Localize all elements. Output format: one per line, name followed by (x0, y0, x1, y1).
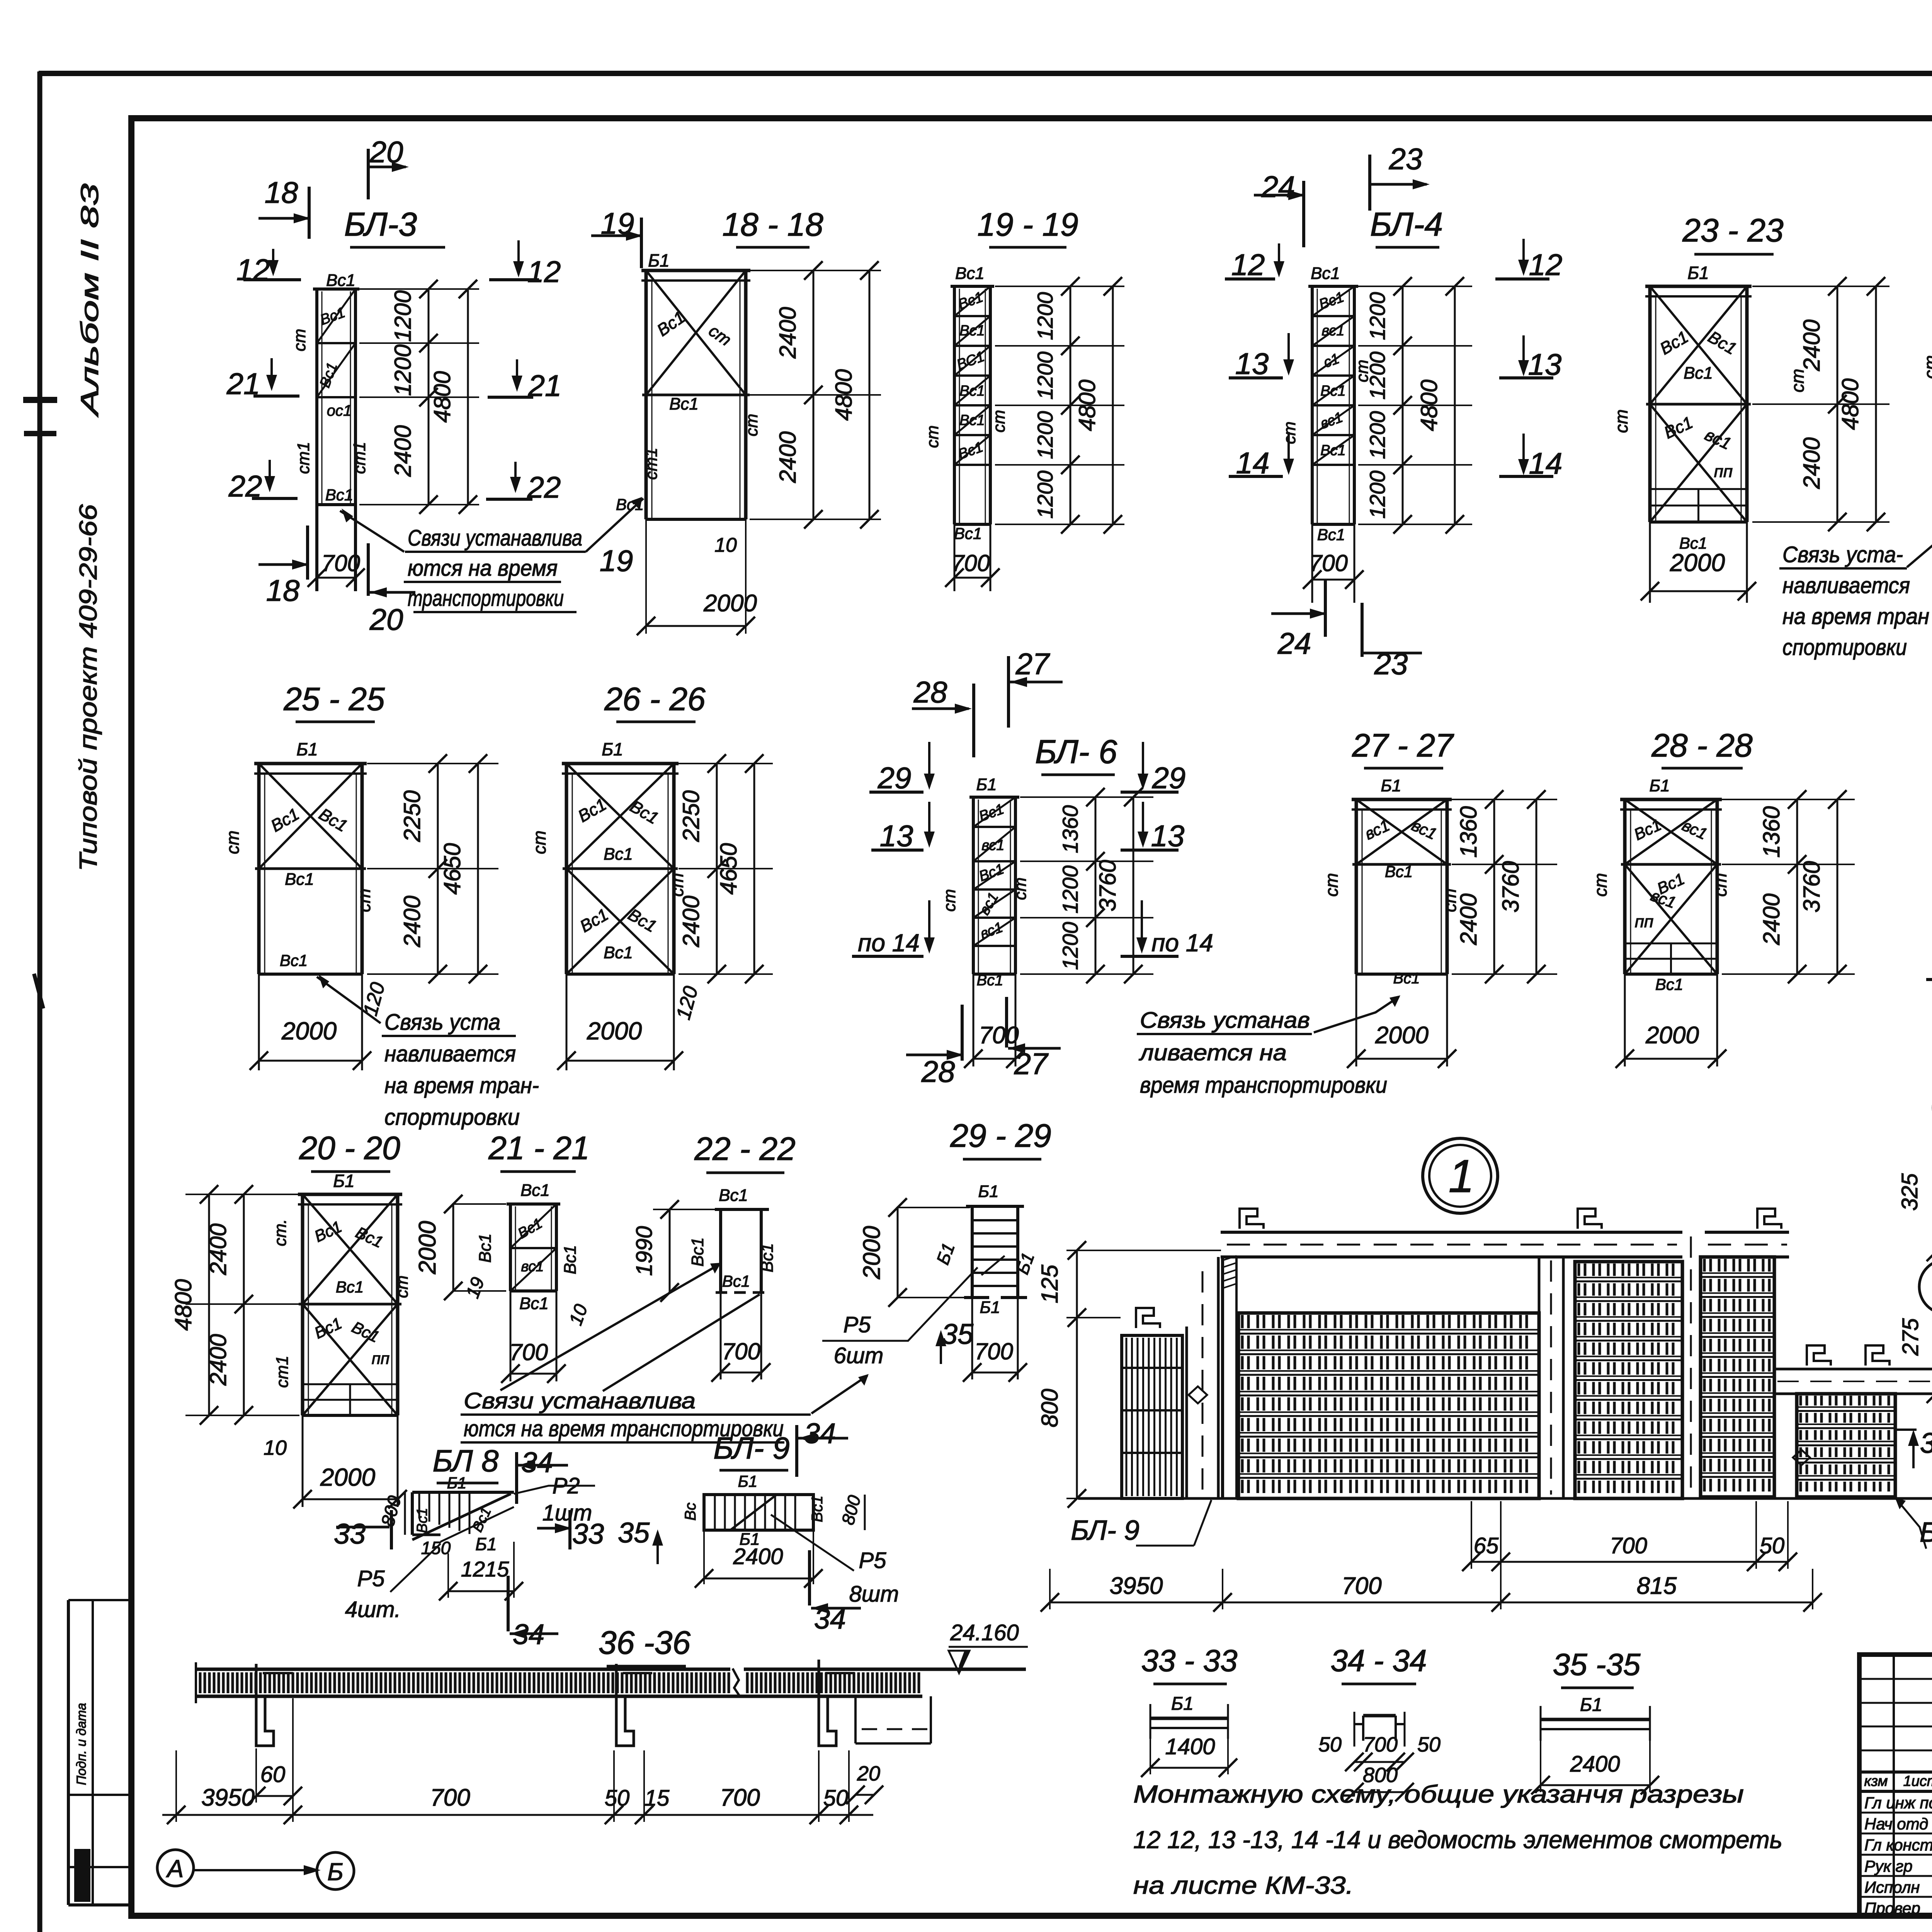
dim 2000 left of 29-29 (896, 1207, 970, 1208)
svg-text:Вс1: Вс1 (977, 972, 1003, 989)
svg-text:Вс1: Вс1 (688, 1237, 707, 1267)
svg-text:2400: 2400 (1456, 893, 1481, 945)
box column 28-28 (1620, 798, 1722, 801)
svg-text:Вс1: Вс1 (722, 1272, 750, 1290)
svg-text:3950: 3950 (201, 1784, 255, 1811)
svg-text:18 - 18: 18 - 18 (722, 206, 823, 243)
svg-text:пп: пп (1635, 912, 1653, 931)
svg-text:пп: пп (372, 1349, 389, 1367)
svg-text:4800: 4800 (429, 371, 455, 422)
svg-text:Вс1: Вс1 (959, 383, 985, 399)
svg-text:1200: 1200 (1058, 922, 1082, 970)
svg-text:28: 28 (913, 675, 947, 709)
36-36 bottom dims 3950/700/50/15/700/50 (175, 1750, 177, 1822)
svg-text:Вс1: Вс1 (959, 412, 985, 429)
dimension total 4800 of БЛ-3 (467, 289, 469, 505)
svg-text:29 - 29: 29 - 29 (950, 1117, 1051, 1154)
svg-text:Вс1: Вс1 (325, 486, 353, 504)
leader from note up-right (811, 1376, 867, 1413)
svg-text:Вс1: Вс1 (719, 1186, 748, 1205)
svg-text:1200: 1200 (1033, 352, 1057, 400)
svg-text:Вс1: Вс1 (1320, 442, 1345, 459)
svg-text:ст: ст (1787, 369, 1808, 392)
extension lines БЛ-4 dims (1358, 286, 1472, 287)
svg-text:ст: ст (923, 425, 942, 448)
svg-text:700: 700 (722, 1338, 760, 1364)
svg-text:12 12, 13 -13, 14 -14: 12 12, 13 -13, 14 -14 и ведомость элемен… (1133, 1826, 1782, 1854)
svg-text:Связь устанав: Связь устанав (1140, 1008, 1310, 1033)
svg-text:ст: ст (529, 830, 549, 854)
svg-text:Вс1: Вс1 (519, 1294, 549, 1313)
svg-text:50: 50 (1417, 1733, 1440, 1756)
svg-text:700: 700 (1610, 1533, 1647, 1558)
svg-text:1400: 1400 (1165, 1734, 1215, 1759)
svg-text:транспортировки: транспортировки (408, 586, 564, 611)
svg-text:Б1: Б1 (648, 250, 670, 270)
left post of big panel (1221, 1257, 1224, 1498)
svg-text:Вс1: Вс1 (1320, 383, 1345, 399)
middle grid panel (1575, 1261, 1682, 1263)
svg-text:2400: 2400 (678, 896, 704, 947)
svg-text:Б1: Б1 (738, 1472, 758, 1490)
right post of big panel (1538, 1257, 1541, 1498)
rung ladder 29-29 (966, 1205, 1024, 1208)
svg-text:3760: 3760 (1095, 860, 1121, 911)
dimension total 4800 of 23-23 (1875, 286, 1877, 522)
svg-text:28 - 28: 28 - 28 (1651, 727, 1753, 764)
svg-text:20: 20 (857, 1762, 880, 1785)
svg-text:Вс1: Вс1 (955, 264, 985, 283)
ladder column 21-21 (507, 1202, 560, 1206)
svg-text:1360: 1360 (1456, 806, 1481, 857)
svg-text:Вс1: Вс1 (1311, 264, 1340, 283)
svg-text:ст.: ст. (271, 1219, 290, 1246)
svg-text:23 - 23: 23 - 23 (1682, 212, 1784, 248)
svg-text:27: 27 (1014, 1047, 1049, 1081)
svg-text:2000: 2000 (414, 1221, 441, 1275)
svg-text:Б1: Б1 (475, 1534, 497, 1554)
svg-text:4шт.: 4шт. (345, 1597, 401, 1622)
dimension chain 1200/1200/2400 of БЛ-3 (428, 289, 430, 505)
dimension total 3760 of 28-28 (1837, 799, 1838, 974)
svg-text:1: 1 (1449, 1150, 1475, 1202)
svg-text:33 - 33: 33 - 33 (1141, 1643, 1237, 1678)
extension lines 19-19 dims (995, 286, 1124, 287)
far right small grid panel (1797, 1393, 1895, 1395)
svg-text:Монтажную схему, общие: Монтажную схему, общие указанчя разрезы (1133, 1780, 1744, 1808)
break mark in bar (733, 1668, 740, 1697)
svg-text:Рук гр: Рук гр (1864, 1857, 1913, 1875)
svg-text:18: 18 (266, 573, 300, 607)
left stair grating БЛ-9 in elevation (1122, 1335, 1182, 1498)
svg-text:Вс1: Вс1 (561, 1245, 580, 1274)
svg-text:Вс1: Вс1 (280, 951, 308, 969)
svg-text:Б1: Б1 (1649, 776, 1670, 795)
box column 25-25 (254, 762, 367, 765)
svg-text:2000: 2000 (587, 1017, 642, 1045)
svg-text:10: 10 (714, 534, 737, 556)
dimension total 4650 of 26-26 (753, 764, 755, 974)
svg-text:Провер: Провер (1864, 1899, 1920, 1917)
svg-text:ливается на: ливается на (1139, 1040, 1287, 1065)
elevation base line (1078, 1497, 1932, 1500)
elevation bottom dim row 65/700/50 (1471, 1501, 1472, 1569)
dimension total 3760 of 27-27 (1536, 799, 1537, 974)
svg-text:2400: 2400 (1799, 437, 1825, 489)
svg-text:2400: 2400 (775, 431, 801, 483)
box column 23-23 (1645, 285, 1752, 288)
dimension chain 1360/2400 of 28-28 (1796, 799, 1798, 974)
svg-text:Б1: Б1 (296, 739, 318, 759)
svg-text:Вс1: Вс1 (285, 870, 314, 889)
svg-text:1200: 1200 (1033, 292, 1057, 340)
svg-text:Б1: Б1 (976, 775, 997, 794)
extension lines 20-20 dims (left) (185, 1194, 299, 1195)
gap dashed line (1690, 1236, 1692, 1495)
svg-text:вс1: вс1 (981, 837, 1004, 854)
svg-text:20 - 20: 20 - 20 (299, 1130, 400, 1166)
bottom-left black bar (75, 1850, 90, 1901)
svg-text:ст: ст (1321, 873, 1342, 896)
dimension total 4800 of БЛ-4 (1454, 286, 1456, 524)
leaders from 22-22 to note (500, 1264, 719, 1390)
svg-text:Связи устанавлива: Связи устанавлива (408, 526, 582, 551)
step beam right (1774, 1368, 1932, 1371)
svg-text:60: 60 (260, 1762, 286, 1787)
bar 33-33 (1150, 1717, 1228, 1720)
dimension total 4650 of 25-25 (477, 764, 479, 974)
svg-text:4800: 4800 (1074, 379, 1100, 431)
svg-text:13: 13 (1235, 347, 1269, 381)
svg-text:22 - 22: 22 - 22 (694, 1131, 796, 1167)
svg-text:навливается: навливается (384, 1041, 516, 1066)
svg-text:А: А (166, 1855, 184, 1883)
column profile 2 under bar (616, 1664, 634, 1746)
svg-text:ос1: ос1 (327, 402, 352, 419)
svg-text:Вс1: Вс1 (959, 323, 985, 339)
svg-text:Р5: Р5 (859, 1548, 887, 1573)
svg-text:Вс1: Вс1 (604, 943, 633, 962)
svg-text:Вс1: Вс1 (1655, 975, 1683, 993)
svg-text:2400: 2400 (1799, 320, 1825, 371)
svg-text:700: 700 (975, 1338, 1013, 1364)
leader from note to 24-24 (1907, 520, 1932, 567)
svg-text:36 -36: 36 -36 (599, 1624, 690, 1661)
svg-text:13: 13 (1151, 819, 1185, 853)
svg-text:Б1: Б1 (333, 1171, 355, 1191)
svg-text:1200: 1200 (1365, 411, 1389, 459)
svg-text:20: 20 (369, 602, 403, 636)
svg-text:ст: ст (667, 873, 687, 896)
leader 25-25 to note (317, 977, 381, 1023)
dimension chain 1360/2400 of 27-27 (1493, 799, 1495, 974)
svg-text:700: 700 (321, 550, 360, 576)
axis circle Б (317, 1852, 354, 1889)
svg-text:Гл конст: Гл конст (1864, 1836, 1932, 1854)
svg-text:ст: ст (1611, 409, 1631, 433)
stair stringer of БЛ-8 (412, 1494, 511, 1540)
dimension total 4800 of 20-20 (left) (208, 1194, 210, 1415)
title block left grid horizontals (1859, 1678, 1932, 1680)
svg-text:12: 12 (1231, 248, 1265, 282)
svg-text:ст1: ст1 (350, 442, 369, 474)
svg-text:Вс1: Вс1 (1684, 364, 1713, 383)
svg-text:65: 65 (1474, 1533, 1499, 1558)
svg-text:2000: 2000 (1375, 1022, 1429, 1049)
dimension chain 1360/1200/1200 of БЛ-6 (1095, 797, 1097, 974)
dimension chain 1200x4 of 19-19 (1070, 286, 1071, 524)
svg-text:Р5: Р5 (357, 1566, 385, 1591)
svg-text:Вс1: Вс1 (669, 395, 699, 413)
extension lines 25-25 dims (367, 763, 498, 764)
svg-text:1200: 1200 (1365, 471, 1389, 519)
svg-text:на время тран-: на время тран- (384, 1073, 539, 1098)
svg-text:1200: 1200 (390, 344, 416, 396)
svg-text:навливается: навливается (1782, 573, 1910, 598)
svg-text:Б1: Б1 (1381, 776, 1401, 795)
svg-text:35: 35 (618, 1517, 650, 1549)
svg-text:2400: 2400 (775, 307, 801, 359)
svg-text:27: 27 (1015, 647, 1050, 681)
svg-text:2000: 2000 (1670, 549, 1725, 577)
svg-text:275: 275 (1898, 1318, 1923, 1356)
svg-text:Альбом II 83: Альбом II 83 (76, 183, 104, 418)
svg-text:50: 50 (605, 1786, 630, 1811)
svg-text:Б1: Б1 (602, 739, 623, 759)
svg-text:1215: 1215 (461, 1557, 509, 1581)
svg-text:Вс1: Вс1 (326, 271, 355, 290)
svg-text:10: 10 (264, 1436, 287, 1459)
bottom-left stamp boxes (67, 1600, 70, 1905)
svg-text:Типовой проект 409-29-66: Типовой проект 409-29-66 (74, 504, 102, 871)
svg-text:Б1: Б1 (980, 1298, 1000, 1317)
svg-text:21 - 21: 21 - 21 (488, 1130, 590, 1166)
clip symbols on top beam (1240, 1209, 1264, 1229)
svg-text:3950: 3950 (1110, 1573, 1163, 1599)
svg-text:33: 33 (572, 1518, 604, 1550)
box column 26-26 (562, 762, 679, 765)
svg-text:13: 13 (1528, 347, 1562, 381)
svg-text:1200: 1200 (1033, 471, 1057, 519)
anchor diamond on column (1189, 1386, 1207, 1403)
svg-text:ст: ст (393, 1276, 412, 1298)
svg-text:3760: 3760 (1498, 861, 1524, 912)
svg-text:19 - 19: 19 - 19 (977, 206, 1078, 243)
svg-text:27 - 27: 27 - 27 (1352, 727, 1454, 764)
svg-text:ются на время: ются на время (408, 556, 558, 581)
svg-text:кзм: кзм (1864, 1773, 1888, 1789)
svg-text:700: 700 (979, 1022, 1019, 1049)
column profile 1 under bar (256, 1664, 274, 1746)
right grid panel (1701, 1256, 1774, 1258)
svg-text:815: 815 (1637, 1573, 1677, 1599)
svg-text:Вс1: Вс1 (758, 1243, 777, 1272)
svg-text:Вс1: Вс1 (336, 1278, 364, 1296)
svg-text:по 14: по 14 (1151, 929, 1213, 957)
svg-text:ст: ст (1590, 873, 1611, 896)
svg-text:23: 23 (1389, 142, 1423, 176)
svg-text:4800: 4800 (831, 369, 857, 420)
svg-text:Связь уста-: Связь уста- (1782, 542, 1903, 567)
dim 2000 left of 21-21 (452, 1203, 506, 1205)
svg-text:325: 325 (1897, 1173, 1922, 1211)
svg-text:1200: 1200 (1365, 352, 1389, 400)
svg-text:на время тран: на время тран (1782, 604, 1929, 629)
dimension chain 2400/2400 of 20-20 (left) (243, 1194, 245, 1415)
anchor diamond right (1793, 1450, 1810, 1465)
svg-text:1360: 1360 (1759, 806, 1784, 857)
svg-text:125: 125 (1037, 1264, 1063, 1303)
leader note to 27-27 (1314, 997, 1399, 1032)
ladder column БЛ-4 (1308, 285, 1358, 288)
outer border left (37, 71, 43, 1932)
dimension chain 2400/2400 of 18-18 (813, 270, 815, 519)
svg-text:на листе КМ-33.: на листе КМ-33. (1133, 1871, 1354, 1899)
elevation top beam (1221, 1231, 1682, 1234)
ladder column БЛ-6 (969, 796, 1019, 799)
svg-text:ст: ст (290, 329, 309, 352)
svg-text:Б1: Б1 (447, 1474, 467, 1492)
svg-text:Б: Б (327, 1858, 344, 1886)
svg-text:12: 12 (236, 253, 270, 287)
svg-text:2250: 2250 (399, 790, 425, 842)
svg-text:700: 700 (1342, 1573, 1381, 1599)
ladder column 19-19 (951, 285, 994, 288)
svg-text:Гл инж по: Гл инж по (1864, 1794, 1932, 1812)
svg-text:28: 28 (921, 1054, 955, 1088)
36-36 long bar (196, 1668, 730, 1671)
extension lines 18-18 dims (750, 270, 881, 271)
svg-text:2400: 2400 (1759, 893, 1784, 945)
column profile 3 under bar with dashed duct (819, 1660, 836, 1746)
bar 34-34 (1363, 1714, 1396, 1718)
svg-text:4800: 4800 (1416, 379, 1442, 431)
svg-text:ст: ст (1920, 355, 1932, 379)
svg-text:Связи устанавлива: Связи устанавлива (464, 1388, 696, 1413)
svg-text:700: 700 (951, 550, 990, 576)
svg-text:Б1: Б1 (1171, 1694, 1194, 1714)
column strip with dashes (1185, 1327, 1188, 1498)
extension lines 26-26 dims (679, 763, 773, 764)
svg-text:Вс1: Вс1 (414, 1508, 430, 1533)
extension lines 27-27 dims (1452, 799, 1557, 800)
svg-text:БЛ- 6: БЛ- 6 (1035, 733, 1117, 770)
svg-text:БЛ- 9: БЛ- 9 (713, 1431, 790, 1465)
svg-text:Вс1: Вс1 (616, 495, 644, 514)
svg-text:24.160: 24.160 (950, 1620, 1019, 1645)
bar 35-35 (1541, 1718, 1650, 1721)
svg-text:34 - 34: 34 - 34 (1330, 1643, 1427, 1678)
box column 27-27 (1352, 798, 1452, 801)
dimension chain 1200x4 of БЛ-4 (1402, 286, 1404, 524)
svg-text:700: 700 (720, 1784, 760, 1811)
svg-text:700: 700 (1309, 550, 1348, 576)
extension lines БЛ-6 dims (1020, 796, 1153, 798)
dim 1990 left of 22-22 (653, 1209, 717, 1210)
svg-text:Б1: Б1 (1687, 263, 1709, 283)
svg-text:Вс1: Вс1 (520, 1181, 550, 1200)
svg-text:6шт: 6шт (834, 1343, 884, 1368)
title block left grid verticals (1893, 1655, 1895, 1916)
svg-text:2000: 2000 (1645, 1022, 1699, 1049)
svg-text:2250: 2250 (678, 790, 704, 842)
svg-text:29: 29 (878, 761, 912, 795)
svg-text:БЛ 8: БЛ 8 (433, 1444, 499, 1478)
leader from note to 18-18 leg (586, 498, 643, 552)
svg-text:БЛ-4: БЛ-4 (1370, 206, 1443, 243)
svg-text:2000: 2000 (281, 1017, 337, 1045)
svg-text:Вс: Вс (682, 1503, 699, 1521)
svg-text:2000: 2000 (703, 590, 757, 617)
svg-text:2400: 2400 (733, 1544, 783, 1569)
svg-text:ст: ст (742, 414, 761, 437)
dimension total 4800 of 19-19 (1112, 286, 1114, 524)
outer border top (39, 71, 1932, 76)
svg-text:35: 35 (942, 1318, 974, 1350)
svg-text:50: 50 (1760, 1533, 1785, 1558)
svg-text:2400: 2400 (399, 896, 425, 947)
svg-text:2000: 2000 (859, 1226, 885, 1280)
elevation bottom dim row 3950/700/815 (1049, 1569, 1051, 1609)
title block outer (1859, 1655, 1932, 1916)
leader from БЛ-3 bottom to note (340, 511, 404, 552)
svg-text:ст: ст (990, 410, 1009, 433)
svg-text:1200: 1200 (1033, 411, 1057, 459)
svg-text:25 - 25: 25 - 25 (283, 681, 385, 717)
svg-text:800: 800 (1037, 1389, 1063, 1427)
svg-text:18: 18 (265, 175, 298, 209)
dimension chain 2250/2400 of 25-25 (437, 764, 439, 974)
svg-text:34: 34 (521, 1446, 553, 1478)
svg-text:ст: ст (940, 889, 959, 912)
svg-text:36: 36 (1920, 1427, 1932, 1459)
svg-text:Вс1: Вс1 (1393, 970, 1420, 987)
svg-text:4800: 4800 (1837, 378, 1863, 430)
svg-text:спортировки: спортировки (1782, 635, 1907, 660)
svg-text:29: 29 (1152, 761, 1186, 795)
svg-text:2000: 2000 (320, 1463, 376, 1491)
dimension chain 2250/2400 of 26-26 (716, 764, 718, 974)
dimension chain 2400/2400 of 23-23 (1837, 286, 1838, 522)
dimension total 3760 of БЛ-6 (1133, 797, 1134, 974)
svg-text:12: 12 (527, 255, 561, 289)
svg-text:26 - 26: 26 - 26 (604, 681, 706, 717)
svg-text:8шт: 8шт (849, 1582, 899, 1607)
svg-text:33: 33 (334, 1518, 366, 1550)
svg-text:50: 50 (1318, 1733, 1342, 1756)
svg-text:4800: 4800 (170, 1279, 196, 1330)
svg-text:24: 24 (1277, 626, 1311, 660)
svg-text:Подп. и дата: Подп. и дата (74, 1703, 89, 1785)
svg-text:12: 12 (1529, 248, 1563, 282)
svg-text:15: 15 (645, 1786, 670, 1811)
svg-text:Нач отд: Нач отд (1864, 1815, 1928, 1833)
svg-text:Б1: Б1 (978, 1182, 998, 1201)
svg-text:700: 700 (509, 1339, 548, 1365)
svg-text:по 14: по 14 (858, 929, 920, 957)
svg-text:Вс1: Вс1 (604, 845, 633, 864)
extension lines 23-23 dims (1752, 286, 1889, 287)
svg-text:2400: 2400 (1570, 1752, 1620, 1777)
svg-text:700: 700 (430, 1784, 470, 1811)
big left grid panel (1238, 1312, 1539, 1314)
svg-text:Вс1: Вс1 (1317, 526, 1345, 544)
svg-text:50: 50 (823, 1786, 849, 1811)
svg-text:ст: ст (223, 830, 243, 854)
svg-text:ст: ст (1011, 878, 1030, 900)
svg-text:пп: пп (1714, 462, 1733, 481)
extension lines БЛ-3 dims (359, 288, 479, 290)
